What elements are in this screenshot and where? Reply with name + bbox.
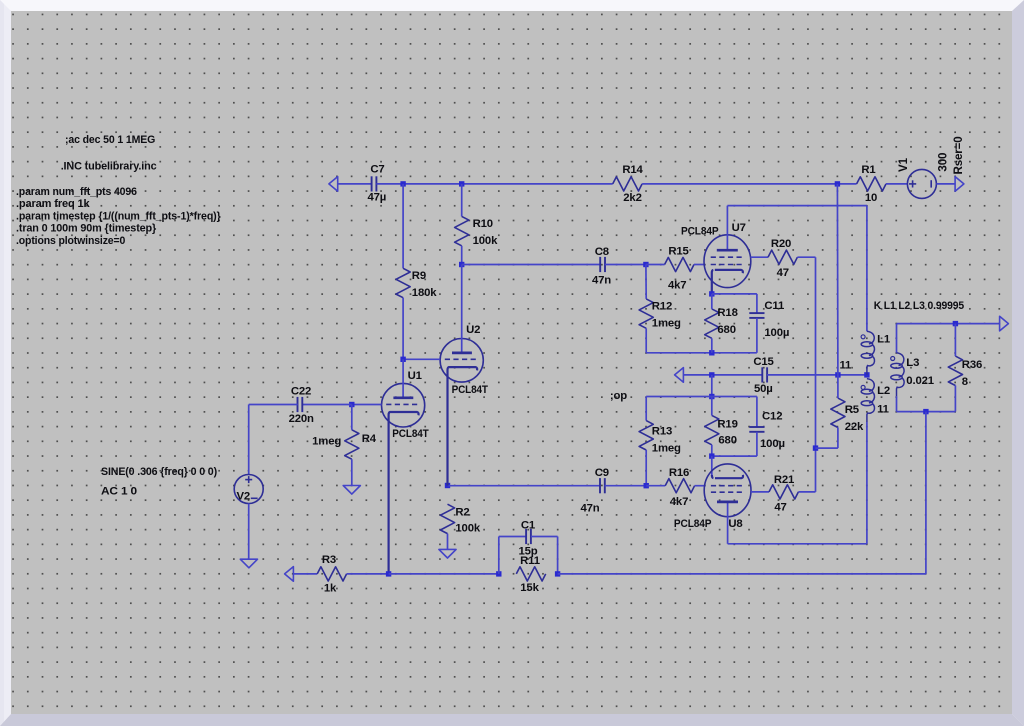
svg-text:V1: V1	[897, 157, 910, 172]
resistor R5	[831, 398, 864, 433]
svg-text:1meg: 1meg	[652, 317, 681, 329]
svg-text:R2: R2	[455, 506, 469, 518]
port flag node OP (left)	[675, 368, 684, 383]
node junction U1 cathode / bottom rail	[386, 571, 391, 576]
svg-text:R21: R21	[774, 474, 794, 486]
capacitor C15	[753, 356, 773, 395]
wire U8 g2 to R21	[751, 491, 769, 493]
wire C1 left vertical	[498, 537, 500, 574]
resistor R19	[705, 415, 738, 446]
node junction U2 grid / U1 plate / R9	[400, 357, 405, 362]
wire R1 to V1	[886, 183, 907, 185]
wire port to C7	[338, 183, 372, 185]
inductor L3	[891, 353, 934, 396]
svg-text:100k: 100k	[473, 235, 498, 247]
svg-text:47: 47	[777, 267, 789, 279]
wire R10 to C8 node	[461, 246, 463, 265]
svg-text:L1: L1	[877, 334, 890, 346]
svg-text:R10: R10	[473, 218, 493, 230]
tube U7 PCL84P pentode	[681, 206, 751, 294]
svg-text:C22: C22	[291, 386, 311, 398]
capacitor C1	[518, 519, 537, 557]
wire R13 top lead	[645, 397, 647, 421]
resistor R1	[857, 164, 886, 204]
wire bottom rail to C1 loop	[389, 573, 499, 575]
port flag node B+ out (right)	[955, 177, 964, 192]
wire C11 bottom lead	[756, 318, 758, 353]
wire R21 to screen bus	[798, 491, 815, 493]
svg-text:U8: U8	[728, 518, 742, 530]
resistor R12	[639, 299, 681, 330]
capacitor C11	[749, 300, 789, 339]
voltage source V2	[234, 475, 263, 504]
node junction U8 cathode	[709, 453, 714, 458]
wire secondary bottom	[897, 411, 956, 413]
node junction screen bus / R5	[813, 445, 818, 450]
svg-text:PCL84P: PCL84P	[674, 518, 712, 530]
resistor R10	[455, 216, 498, 247]
wire R20 to screen bus	[797, 256, 815, 258]
resistor R9	[396, 268, 437, 299]
wire R5 bottom lead	[837, 428, 839, 449]
svg-text:4k7: 4k7	[670, 496, 688, 508]
svg-text:R1: R1	[861, 164, 875, 176]
tube U2 PCL84T triode	[440, 265, 488, 486]
svg-text:L3: L3	[906, 357, 919, 369]
node junction op row / cathode chain	[709, 372, 714, 377]
wire U1 grid pin	[352, 404, 382, 406]
wire R3 to U1 cathode node	[347, 573, 389, 575]
wire C1 top right	[531, 536, 558, 538]
svg-text:1meg: 1meg	[652, 443, 681, 455]
wire secondary left top	[896, 324, 898, 353]
wire V2 top to C22	[249, 404, 298, 406]
inductor L2	[861, 379, 890, 422]
svg-text:C12: C12	[762, 411, 782, 423]
node junction top rail / B+ drop	[835, 181, 840, 186]
capacitor C22	[289, 386, 314, 426]
resistor R13	[639, 421, 681, 455]
resistor R14	[613, 164, 644, 204]
svg-text:R9: R9	[412, 270, 426, 282]
svg-text:47µ: 47µ	[367, 191, 386, 203]
resistor R15	[665, 246, 694, 292]
wire C22 to junction	[302, 404, 352, 406]
svg-text:R14: R14	[622, 164, 643, 176]
wire R4 bottom lead	[351, 459, 353, 485]
directive .param fft	[16, 186, 137, 198]
svg-text:.tran 0 100m 90m {timestep}: .tran 0 100m 90m {timestep}	[16, 223, 157, 235]
svg-text:11: 11	[840, 359, 852, 371]
svg-text:R5: R5	[845, 404, 859, 416]
node junction R19 top	[709, 394, 714, 399]
wire top rail down to R10	[461, 184, 463, 217]
wire R15 to U7 grid pin	[694, 264, 705, 266]
svg-text:K L1 L2 L3 0.99995: K L1 L2 L3 0.99995	[874, 300, 964, 312]
wire cathode to C11 top	[712, 293, 757, 295]
wire U7 g2 to R20	[751, 256, 768, 258]
svg-text:.param timestep {1/((num_fft_p: .param timestep {1/((num_fft_pts-1)*freq…	[16, 211, 221, 223]
wire B+ vertical drop	[836, 184, 839, 375]
svg-text:PCL84P: PCL84P	[681, 226, 719, 238]
svg-text:C1: C1	[521, 519, 535, 531]
wire to R16	[646, 485, 665, 487]
svg-text:22k: 22k	[845, 421, 864, 433]
svg-text:10: 10	[865, 192, 877, 204]
svg-text:220n: 220n	[289, 413, 314, 425]
wire U7 plate top run	[727, 205, 867, 207]
;op comment text	[610, 390, 627, 402]
ground (R2)	[439, 549, 456, 558]
wire secondary return down	[925, 412, 927, 574]
wire R5 top lead	[837, 375, 839, 398]
resistor R21	[769, 474, 798, 513]
wire V2 bottom lead	[248, 504, 250, 560]
node junction top rail / R9	[400, 181, 405, 186]
node junction C22 / R4 / U1 grid	[349, 402, 354, 407]
ground (V2)	[240, 559, 257, 568]
wire C9 row left	[448, 485, 601, 487]
port flag node OUT (right)	[1000, 316, 1009, 331]
svg-text:V2: V2	[237, 491, 251, 503]
wire R13 bottom lead	[645, 450, 647, 486]
resistor R36	[948, 356, 982, 388]
svg-text:AC 1 0: AC 1 0	[101, 486, 137, 498]
wire R5 to screen bus	[816, 447, 838, 449]
wire U8 cathode lead	[711, 456, 713, 475]
resistor R2	[440, 504, 480, 534]
wire R4 top lead	[351, 405, 353, 430]
SINE directive text	[101, 466, 217, 478]
directive .param timestep	[16, 211, 221, 223]
svg-text:U1: U1	[408, 370, 422, 382]
tube U8 PCL84P pentode (mirrored)	[674, 464, 751, 544]
svg-text:50µ: 50µ	[754, 383, 773, 395]
svg-text:.param num_fft_pts 4096: .param num_fft_pts 4096	[16, 186, 137, 198]
svg-text:4k7: 4k7	[668, 280, 686, 292]
resistor R11	[516, 555, 545, 594]
node junction R12 top	[643, 262, 648, 267]
svg-text:0.021: 0.021	[906, 375, 934, 387]
svg-text:C9: C9	[595, 467, 609, 479]
wire C9 to R13 node	[605, 485, 647, 487]
svg-text:.INC tubelibrary.inc: .INC tubelibrary.inc	[61, 160, 157, 172]
svg-text:100µ: 100µ	[760, 438, 785, 450]
node junction secondary top / R36	[953, 321, 958, 326]
directive .tran	[16, 223, 157, 235]
inductor L1	[840, 331, 891, 374]
wire R18 top lead	[711, 294, 713, 309]
svg-text:C7: C7	[370, 164, 384, 176]
svg-text:2k2: 2k2	[623, 192, 641, 204]
svg-text:Rser=0: Rser=0	[952, 136, 965, 174]
wire C12 top lead	[756, 397, 758, 428]
svg-text:L2: L2	[877, 385, 890, 397]
svg-text:100µ: 100µ	[764, 327, 789, 339]
resistor R20	[768, 238, 797, 279]
wire C8 to R15 node	[605, 264, 646, 266]
svg-text:R13: R13	[652, 426, 672, 438]
svg-text:R15: R15	[668, 246, 688, 258]
svg-text:180k: 180k	[412, 287, 437, 299]
wire secondary top	[897, 323, 999, 325]
wire R12 top lead	[645, 265, 647, 299]
node junction C1 right	[555, 571, 560, 576]
wire secondary left bottom	[896, 396, 898, 411]
node junction C1 left	[496, 571, 501, 576]
svg-text:47n: 47n	[592, 274, 611, 286]
wire R9 to U2 grid node	[402, 298, 404, 360]
wire R14 to R1	[642, 183, 857, 185]
ground (R4)	[343, 486, 360, 495]
wire U2 grid to node	[403, 358, 440, 360]
svg-text:R16: R16	[669, 467, 689, 479]
tube U1 PCL84T triode	[382, 359, 429, 574]
svg-text:R12: R12	[652, 300, 672, 312]
svg-text:PCL84T: PCL84T	[392, 428, 428, 440]
svg-text:SINE(0 .306 {freq} 0 0 0): SINE(0 .306 {freq} 0 0 0)	[101, 466, 217, 478]
wire C11 top lead	[756, 294, 758, 313]
wire plate run up to L2	[866, 422, 868, 544]
node junction B+ / R5	[835, 372, 840, 377]
svg-text:R11: R11	[520, 555, 540, 567]
node junction U7 cathode	[709, 291, 714, 296]
directive .options	[16, 235, 125, 247]
voltage source V1	[897, 136, 965, 198]
svg-text:100k: 100k	[455, 522, 480, 534]
directive ;ac	[65, 134, 155, 146]
port flag node FB (left)	[285, 567, 294, 582]
node junction secondary bottom	[923, 409, 928, 414]
K coupling statement	[874, 300, 964, 312]
svg-text:R19: R19	[717, 419, 737, 431]
capacitor C12	[749, 411, 785, 450]
wire R36 top lead	[954, 324, 956, 357]
svg-text:.options plotwinsize=0: .options plotwinsize=0	[16, 235, 125, 247]
svg-text:8: 8	[962, 376, 968, 388]
svg-text:680: 680	[717, 324, 735, 336]
wire network top rail	[646, 396, 757, 398]
directive .param freq	[16, 198, 90, 210]
node junction C8 row / U2 plate	[459, 262, 464, 267]
svg-text:R4: R4	[362, 433, 377, 445]
svg-text:R36: R36	[962, 359, 982, 371]
svg-text:.param freq 1k: .param freq 1k	[16, 198, 90, 210]
wire V2 top lead	[248, 405, 250, 475]
wire R12 bottom lead	[645, 328, 647, 353]
svg-text:R20: R20	[771, 238, 791, 250]
svg-text:11: 11	[877, 404, 889, 416]
node junction U2 cathode / C9	[445, 483, 450, 488]
wire port to R3	[293, 573, 317, 575]
wire V1 to out port	[936, 183, 955, 185]
wire R18 bottom lead	[711, 338, 713, 353]
svg-text:PCL84T: PCL84T	[452, 384, 488, 396]
wire chain op node down	[711, 375, 713, 397]
svg-text:300: 300	[937, 153, 950, 172]
wire top rail down to R9	[402, 184, 404, 268]
resistor R4	[312, 430, 377, 459]
svg-text:;op: ;op	[610, 390, 627, 402]
wire R16 to U8 grid pin	[695, 485, 706, 487]
svg-text:47: 47	[774, 501, 786, 513]
wire network bottom rail	[712, 455, 757, 457]
wire C15 to B+ node	[767, 374, 867, 376]
wire C1 right vertical	[557, 537, 559, 574]
wire R2 bottom lead	[447, 534, 449, 550]
node junction L1-L2 center tap	[864, 372, 869, 377]
wire R36 bottom lead	[954, 386, 956, 412]
node junction top rail / R10	[459, 181, 464, 186]
svg-text:U7: U7	[732, 222, 746, 234]
capacitor C7	[367, 164, 386, 204]
capacitor C8	[592, 246, 611, 286]
svg-text:47n: 47n	[580, 503, 599, 515]
wire bottom rail long	[558, 573, 926, 575]
wire C7 to R14 (top rail)	[376, 183, 612, 185]
resistor R3	[317, 554, 346, 594]
svg-text:15k: 15k	[520, 582, 539, 594]
svg-text:U2: U2	[466, 324, 480, 336]
wire plate run down to L1	[866, 206, 868, 332]
svg-text:R3: R3	[322, 554, 336, 566]
svg-text:;ac dec 50 1 1MEG: ;ac dec 50 1 1MEG	[65, 134, 155, 146]
capacitor C9	[580, 467, 608, 515]
wire C8-row left segment	[462, 264, 601, 266]
svg-text:1meg: 1meg	[312, 436, 341, 448]
svg-text:C11: C11	[764, 300, 784, 312]
AC directive text	[101, 486, 137, 498]
wire R19 top lead	[711, 397, 713, 416]
svg-text:C8: C8	[595, 246, 609, 258]
svg-text:1k: 1k	[324, 582, 337, 594]
wire R12 to C11 bottom rail	[646, 352, 757, 354]
svg-text:R18: R18	[717, 307, 737, 319]
resistor R18	[705, 307, 738, 338]
port flag node IN-left (top rail)	[329, 177, 338, 192]
wire op port to C15	[683, 374, 762, 376]
wire R19 bottom lead	[711, 445, 713, 456]
node junction R18 bottom rail	[709, 350, 714, 355]
resistor R16	[665, 467, 694, 508]
svg-text:680: 680	[718, 435, 736, 447]
wire screen bus vertical	[815, 257, 817, 492]
directive .INC	[61, 160, 157, 172]
wire C12 bottom lead	[756, 432, 758, 456]
wire C1 top left	[499, 536, 526, 538]
wire to R15	[646, 264, 665, 266]
svg-text:C15: C15	[753, 356, 773, 368]
wire U8 plate down run	[728, 543, 867, 545]
node junction R13 bottom	[644, 483, 649, 488]
